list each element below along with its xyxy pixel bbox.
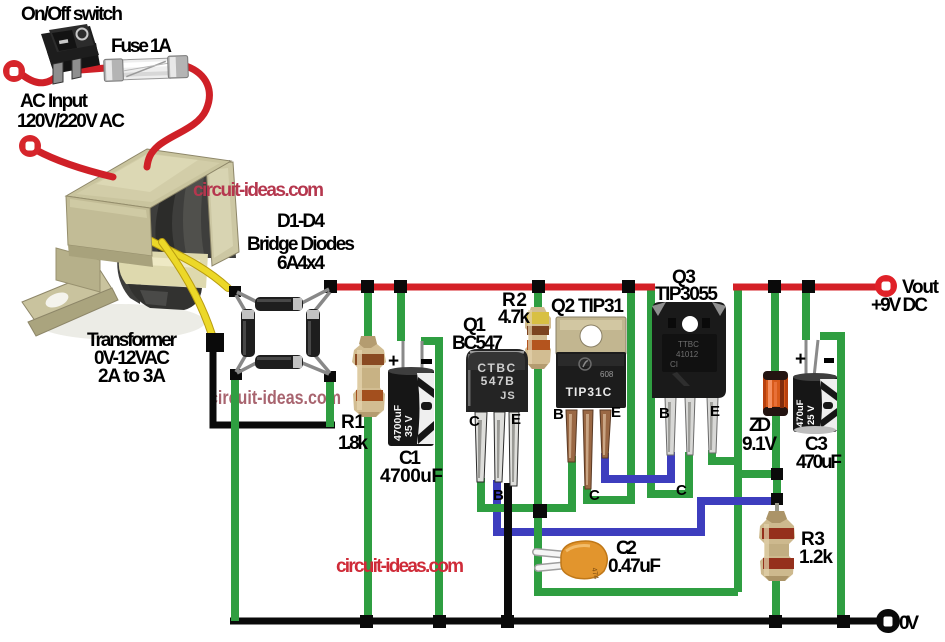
svg-text:E: E [710,403,720,420]
svg-text:Bridge Diodes: Bridge Diodes [247,234,355,255]
svg-text:547B: 547B [481,374,516,388]
svg-text:E: E [611,404,621,421]
svg-text:41012: 41012 [676,350,699,359]
svg-text:6A4x4: 6A4x4 [277,253,325,274]
svg-text:B: B [493,487,504,504]
svg-text:circuit-ideas.com: circuit-ideas.com [193,180,324,201]
svg-text:0V: 0V [899,613,919,634]
svg-text:25 V: 25 V [806,405,817,425]
svg-text:Fuse 1A: Fuse 1A [111,36,172,57]
svg-text:C: C [469,413,480,430]
svg-text:D1-D4: D1-D4 [277,211,325,232]
svg-text:4.7k: 4.7k [498,307,530,328]
svg-text:AC Input: AC Input [20,91,89,112]
svg-text:B: B [659,405,670,422]
svg-text:B: B [553,406,564,423]
svg-text:E: E [511,411,521,428]
svg-text:ZD: ZD [749,415,771,436]
svg-text:circuit-ideas.com: circuit-ideas.com [209,388,341,409]
svg-text:TIP3055: TIP3055 [655,284,718,305]
svg-text:+: + [388,351,399,372]
svg-text:On/Off switch: On/Off switch [21,4,123,25]
svg-text:4700uF: 4700uF [380,466,443,487]
svg-text:470uF: 470uF [796,452,842,473]
svg-text:+: + [795,349,806,370]
svg-text:608: 608 [600,370,614,379]
svg-text:TTBC: TTBC [678,340,699,349]
svg-text:Q2 TIP31: Q2 TIP31 [551,296,624,317]
svg-text:CI: CI [670,360,678,369]
svg-text:CTBC: CTBC [477,361,516,375]
svg-text:2A to 3A: 2A to 3A [98,366,166,387]
svg-text:470uF: 470uF [795,399,806,427]
svg-text:1.2k: 1.2k [799,547,833,568]
svg-text:BC547: BC547 [452,333,503,354]
svg-text:C: C [676,482,687,499]
svg-text:9.1V: 9.1V [742,434,777,455]
svg-text:35 V: 35 V [403,415,415,437]
svg-text:1.8k: 1.8k [338,433,368,454]
svg-text:120V/220V AC: 120V/220V AC [17,111,125,132]
svg-text:circuit-ideas.com: circuit-ideas.com [336,556,464,577]
svg-text:0.47uF: 0.47uF [608,556,661,577]
svg-text:R1: R1 [341,412,365,433]
svg-text:+9V DC: +9V DC [871,295,928,316]
svg-text:TIP31C: TIP31C [566,385,613,399]
svg-text:JS: JS [500,390,515,402]
svg-text:C: C [589,487,600,504]
